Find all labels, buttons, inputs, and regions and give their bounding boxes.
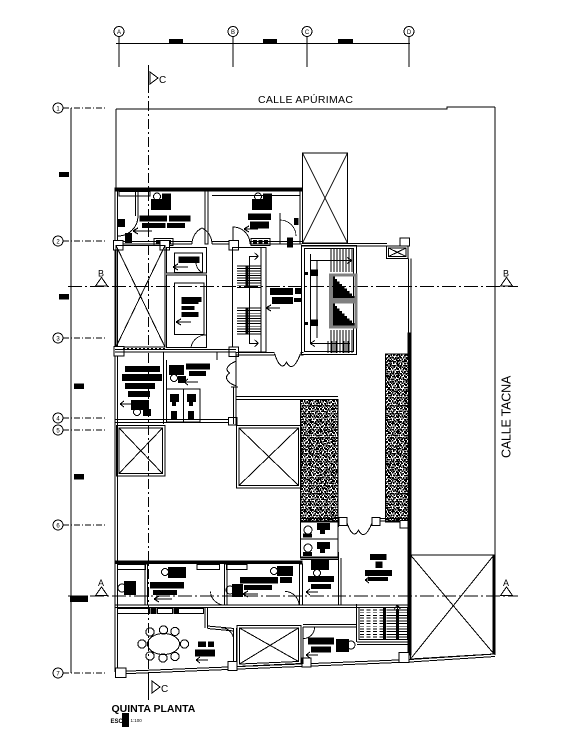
exterior wall top (thick): [115, 188, 302, 191]
column east yard: [399, 653, 409, 663]
section line A horizontal: [68, 595, 518, 597]
door arc office C left: [211, 592, 225, 606]
core wall stubs: [304, 270, 318, 327]
arrow office M2: [176, 319, 191, 325]
desk office B3: [240, 577, 292, 590]
svg-text:B: B: [503, 269, 509, 279]
stair west divider bars: [246, 266, 249, 334]
wall partition office T1/T2: [205, 191, 208, 244]
shaft X-box tall left: [116, 246, 165, 348]
core top stair arrow: [310, 258, 352, 264]
column court door left: [339, 518, 347, 526]
parapet bump above duct: [400, 238, 410, 246]
arrow office T2: [244, 226, 258, 232]
window sill conference 3: [179, 609, 204, 614]
toilet block SE walls: [301, 521, 339, 558]
svg-text:ESC: ESC: [111, 719, 124, 725]
wall pier conference 1: [151, 608, 157, 614]
planter strip 1 (stippled): [301, 400, 339, 523]
computer office SE small: [311, 560, 329, 577]
grid bubble A: [114, 27, 124, 68]
desk office T1: [140, 216, 191, 229]
computer office B3: [271, 566, 294, 576]
desk centre hall: [270, 288, 301, 304]
svg-text:C: C: [159, 75, 166, 86]
office BR walls: [303, 604, 357, 664]
double door squiggle corridor: [275, 354, 301, 367]
partition bottom offices 1: [145, 564, 148, 605]
core top stair treads: [331, 249, 352, 272]
svg-text:B: B: [231, 30, 235, 36]
double door squiggle court: [347, 522, 373, 535]
desk office M2: [182, 297, 202, 317]
stair west inner wall: [260, 248, 262, 353]
wall above planter 1: [236, 397, 338, 400]
column bottom-centre right: [302, 658, 311, 667]
window sill conference 1: [118, 609, 150, 614]
chair figure office B3: [226, 584, 243, 597]
grid bubble 7: [53, 668, 105, 678]
wall court south: [300, 519, 409, 522]
ramp X-box east yard: [411, 555, 495, 659]
arrow office M1: [173, 264, 188, 270]
double door squiggle mid band: [227, 361, 237, 386]
office M1 walls: [167, 248, 207, 274]
section marker A right: [501, 587, 513, 596]
svg-text:C: C: [161, 684, 168, 695]
top dimension line: [116, 43, 410, 45]
wall top of mid band: [115, 350, 236, 353]
desk office M1: [179, 257, 200, 264]
cabinet office T2: [251, 239, 270, 246]
toilet stalls mid band: [167, 389, 201, 422]
exterior wall bottom slanted (double): [118, 654, 495, 674]
svg-text:A: A: [503, 578, 509, 588]
desk mid band top: [186, 364, 210, 377]
section marker C bottom: [149, 672, 161, 700]
door arc office C right: [285, 592, 299, 606]
svg-text:CALLE TACNA: CALLE TACNA: [500, 375, 514, 458]
door arc room T2: [233, 227, 250, 244]
section marker C top: [149, 65, 159, 88]
column court door right: [372, 518, 380, 526]
exterior wall right (thick): [409, 259, 411, 334]
window sill bottom 1: [118, 565, 146, 570]
window sill top-left: [119, 192, 150, 197]
computer office B2: [162, 567, 187, 578]
column bottom-centre left: [228, 662, 237, 671]
computer office T1: [151, 193, 171, 210]
dimension tick marks top: [169, 39, 353, 44]
lot boundary right (CALLE TACNA): [494, 107, 496, 655]
column top stair: [229, 241, 239, 251]
core bottom stair arrow: [310, 341, 350, 347]
desk office BR: [308, 638, 334, 653]
shaft X-box top centre: [303, 153, 348, 243]
window sill bottom 3: [227, 565, 248, 570]
svg-text:A: A: [117, 30, 121, 36]
column mid: [160, 241, 170, 251]
grid bubble C: [302, 27, 312, 68]
arrow conference: [196, 657, 208, 663]
cabinet office T1: [154, 239, 173, 246]
desk office SE small: [308, 576, 334, 589]
exterior wall left: [115, 188, 118, 672]
door arc office M2: [191, 335, 206, 347]
svg-text:CALLE APÚRIMAC: CALLE APÚRIMAC: [258, 93, 353, 106]
window sill conference 2: [158, 609, 173, 614]
stair west outer box: [233, 248, 267, 353]
wall segment x236: [231, 387, 238, 425]
lot boundary right double: [492, 555, 494, 654]
exterior wall right of top band: [300, 191, 303, 244]
wall desk room / toilets: [164, 352, 167, 424]
section marker A left: [96, 587, 108, 596]
grid bubble 6: [53, 520, 105, 530]
core flight side lines: [311, 254, 318, 344]
duct X-box small: [387, 246, 409, 259]
svg-text:A: A: [98, 578, 104, 588]
conference table: [148, 634, 180, 655]
arrow centre hall: [266, 305, 280, 311]
computer archive room: [131, 400, 151, 416]
section line C vertical: [148, 65, 150, 700]
svg-text:B: B: [98, 269, 104, 279]
stair bottom-right treads solid: [387, 610, 408, 637]
desk room SE free-standing: [365, 554, 392, 581]
conference right wall: [205, 608, 234, 632]
computer mid band: [169, 365, 186, 383]
arrow office BR: [306, 652, 318, 658]
toilet fixtures SE: [304, 526, 312, 552]
column room SE top-right: [400, 521, 408, 529]
section line B horizontal: [68, 286, 518, 288]
lot boundary top (CALLE APURIMAC): [116, 107, 495, 109]
partition bottom offices 3: [300, 564, 303, 605]
shaft X-box bottom-centre: [237, 626, 301, 667]
wall conference/X-box: [234, 628, 237, 666]
arrow archive room: [120, 401, 133, 407]
column bottom-left of X-box: [114, 347, 124, 357]
arrow mid band: [184, 379, 198, 385]
door arc office BR: [304, 628, 315, 639]
svg-text:D: D: [407, 30, 412, 36]
arrow office SE small: [306, 589, 318, 595]
grid bubble 4: [53, 413, 105, 423]
partition bottom offices 2: [225, 564, 228, 605]
door arcs corridor top: [192, 228, 212, 244]
grid bubble 3: [53, 333, 105, 343]
office SE walls: [301, 521, 342, 605]
exterior wall bottom offices (thick): [115, 561, 302, 564]
stair bottom-right treads dashed: [360, 610, 383, 637]
wall bottom of offices row: [115, 605, 410, 608]
section marker B left: [96, 278, 108, 287]
section marker B right: [501, 278, 513, 287]
desk stack archive room: [122, 366, 162, 397]
stair bottom-right up arrow: [394, 605, 400, 612]
column mid band right: [229, 418, 238, 426]
shaft X-box mid-left: [117, 426, 166, 477]
svg-text:C: C: [305, 30, 310, 36]
window sill bottom 2: [197, 565, 220, 570]
grid bubble 2: [53, 236, 105, 246]
dimension tick marks left: [59, 172, 88, 602]
chair figure office B1: [118, 581, 136, 595]
lot boundary left upper: [115, 109, 117, 188]
column top-left: [114, 241, 124, 251]
core bottom stair treads: [331, 330, 352, 353]
wall below stair: [357, 642, 408, 645]
grid bubble 5: [53, 425, 105, 435]
stair west treads upper flight: [237, 266, 261, 288]
arrow office T1: [133, 228, 152, 234]
arrow room SE: [365, 577, 377, 583]
column bottom-left corner: [116, 668, 127, 678]
WC fixture top-left: [118, 219, 132, 243]
chair figure office BR: [336, 639, 355, 652]
office M2 walls: [167, 275, 207, 348]
wall pier conference 2: [174, 608, 179, 614]
svg-text:1:100: 1:100: [131, 718, 143, 723]
wall below tall X-box (dotted): [123, 348, 165, 350]
wall y244 from light well to duct: [302, 244, 387, 247]
window sill top-right: [212, 195, 300, 197]
desk office T2: [248, 214, 271, 229]
desk conference: [195, 642, 215, 657]
conference chairs: [138, 626, 189, 662]
corridor walls around door: [236, 353, 304, 356]
entry alcove top-left wall: [118, 191, 138, 236]
stair bottom-right box: [359, 607, 408, 639]
WC fixture right: [287, 218, 299, 248]
desk office B2: [150, 582, 184, 595]
wall bottom of mid band: [115, 420, 236, 423]
core walls: [302, 246, 357, 355]
shaft X-box mid-centre: [237, 426, 302, 489]
planter strip 2 (stippled): [386, 354, 409, 522]
grid bubble D: [404, 27, 414, 68]
grid bubble 1: [53, 103, 105, 113]
stair bottom-right divider bar: [383, 608, 399, 640]
interior wall bottom of top band: [115, 242, 302, 245]
WC room right of T2: [280, 213, 296, 244]
arrow office B2: [154, 596, 172, 602]
arrow office B3: [243, 591, 258, 597]
column stair bottom: [229, 347, 239, 357]
grid bubble B: [228, 27, 238, 68]
core bottom hatch: [328, 341, 352, 353]
left dimension line: [70, 108, 72, 673]
toilet fixtures mid band: [170, 394, 196, 420]
elevator E2: [331, 302, 357, 327]
computer office T2: [252, 193, 272, 210]
elevator E1: [331, 275, 357, 300]
wall stub right of mid band: [217, 352, 236, 424]
stair west treads lower flight: [237, 308, 261, 334]
stair west handrail: [249, 253, 258, 347]
door arc conference: [222, 628, 234, 640]
